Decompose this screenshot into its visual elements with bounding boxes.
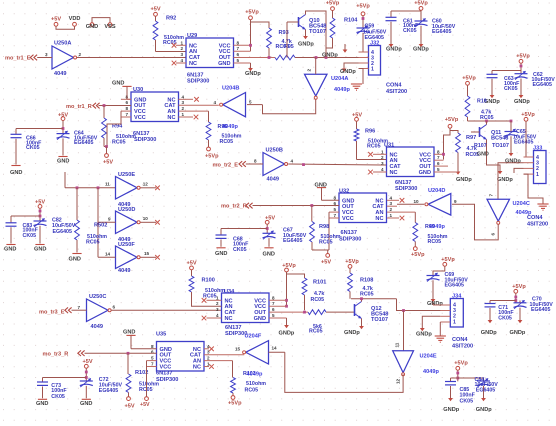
svg-text:1: 1 — [390, 213, 393, 218]
svg-text:GNDp: GNDp — [510, 330, 526, 336]
svg-text:1: 1 — [371, 67, 374, 73]
svg-text:U250F: U250F — [118, 242, 135, 248]
svg-text:5: 5 — [249, 99, 252, 104]
svg-text:RC05: RC05 — [220, 139, 234, 145]
svg-text:6N137: 6N137 — [225, 325, 241, 331]
svg-text:+5V: +5V — [103, 160, 113, 166]
svg-text:GNDp: GNDp — [416, 331, 432, 337]
svg-text:5: 5 — [334, 207, 337, 212]
svg-text:R101: R101 — [313, 280, 326, 286]
svg-text:GNDp: GNDp — [505, 158, 521, 164]
svg-text:CK05: CK05 — [233, 247, 247, 253]
svg-text:+5Vp: +5Vp — [521, 112, 535, 118]
svg-text:4049p: 4049p — [423, 369, 439, 375]
svg-text:EG6405: EG6405 — [283, 238, 302, 244]
svg-text:U204E: U204E — [420, 354, 437, 360]
svg-text:11: 11 — [394, 342, 399, 347]
svg-text:12: 12 — [143, 181, 149, 186]
svg-text:U250C: U250C — [89, 294, 106, 300]
svg-text:GNDp: GNDp — [322, 52, 338, 58]
svg-text:GNDp: GNDp — [298, 42, 314, 48]
svg-text:+5Vp: +5Vp — [205, 153, 219, 159]
svg-text:1: 1 — [453, 319, 456, 325]
svg-text:6: 6 — [437, 161, 440, 166]
svg-text:3: 3 — [45, 52, 48, 57]
svg-text:+5V: +5V — [82, 359, 92, 365]
svg-text:CON4: CON4 — [386, 83, 402, 89]
svg-text:RC05: RC05 — [428, 239, 442, 245]
svg-text:3: 3 — [390, 201, 393, 206]
svg-text:R97: R97 — [466, 135, 476, 141]
svg-text:R98: R98 — [319, 224, 329, 230]
svg-text:7: 7 — [334, 213, 337, 218]
svg-text:NC: NC — [167, 115, 175, 121]
svg-text:RC05: RC05 — [311, 297, 325, 303]
svg-text:2: 2 — [381, 155, 384, 160]
svg-text:mo_tr2_E: mo_tr2_E — [213, 162, 239, 168]
svg-text:12: 12 — [395, 378, 400, 384]
svg-text:RC05: RC05 — [309, 328, 323, 334]
svg-text:3: 3 — [381, 161, 384, 166]
svg-text:9: 9 — [454, 199, 457, 204]
svg-text:2: 2 — [79, 52, 82, 57]
svg-text:RC05: RC05 — [139, 387, 153, 393]
svg-text:GNDp: GNDp — [514, 99, 530, 105]
svg-text:RC05: RC05 — [367, 143, 381, 149]
svg-text:2: 2 — [390, 207, 393, 212]
svg-text:NC: NC — [193, 365, 201, 371]
svg-text:+5Vp: +5Vp — [441, 257, 455, 263]
svg-text:+5V: +5V — [51, 16, 61, 22]
svg-text:2: 2 — [181, 46, 184, 51]
svg-text:+5V: +5V — [321, 259, 331, 265]
svg-text:+5Vp: +5Vp — [462, 75, 476, 81]
svg-text:1: 1 — [536, 172, 539, 178]
svg-text:6: 6 — [237, 52, 240, 57]
svg-text:R95: R95 — [284, 44, 294, 50]
svg-text:4SIT200: 4SIT200 — [527, 222, 548, 228]
svg-text:4: 4 — [181, 58, 184, 63]
svg-text:TO107: TO107 — [371, 317, 388, 323]
svg-text:4: 4 — [182, 94, 185, 99]
svg-text:U35: U35 — [156, 332, 166, 338]
svg-text:SDIP300: SDIP300 — [156, 377, 178, 383]
svg-text:+5Vp: +5Vp — [356, 3, 370, 9]
svg-text:NC: NC — [375, 216, 383, 222]
svg-text:+5Vp: +5Vp — [228, 400, 242, 406]
svg-text:U204C: U204C — [513, 201, 530, 207]
svg-text:8: 8 — [126, 106, 129, 111]
svg-text:4049: 4049 — [91, 324, 103, 330]
svg-text:mo_tr1_E: mo_tr1_E — [5, 56, 31, 62]
svg-text:8: 8 — [272, 295, 275, 300]
svg-text:GNDp: GNDp — [481, 330, 497, 336]
svg-text:R100: R100 — [202, 278, 215, 284]
svg-text:+5Vp: +5Vp — [345, 259, 359, 265]
svg-text:TO107: TO107 — [309, 29, 326, 35]
svg-text:EG6405: EG6405 — [445, 282, 464, 288]
svg-text:4: 4 — [381, 167, 384, 172]
svg-text:GND: GND — [477, 152, 489, 158]
svg-text:6: 6 — [113, 305, 116, 310]
svg-text:10: 10 — [143, 216, 149, 221]
svg-text:GNDp: GNDp — [443, 407, 459, 413]
svg-text:3: 3 — [216, 307, 219, 312]
svg-text:2: 2 — [207, 356, 210, 361]
svg-text:GND: GND — [419, 170, 431, 176]
svg-text:4049: 4049 — [118, 268, 130, 274]
svg-text:+5Vp: +5Vp — [411, 252, 425, 258]
svg-text:2: 2 — [216, 301, 219, 306]
svg-text:R502: R502 — [94, 223, 107, 229]
svg-text:U250B: U250B — [266, 148, 283, 154]
svg-text:510ohm: 510ohm — [246, 381, 266, 387]
svg-text:4: 4 — [214, 100, 217, 105]
svg-text:EG6405: EG6405 — [531, 307, 550, 313]
svg-text:R19: R19 — [477, 98, 487, 104]
svg-text:U204F: U204F — [245, 334, 262, 340]
svg-text:VDD: VDD — [69, 16, 81, 22]
svg-text:GND: GND — [263, 252, 275, 258]
svg-text:U204A: U204A — [331, 76, 348, 82]
svg-text:14: 14 — [105, 252, 111, 257]
svg-text:10uF/50V: 10uF/50V — [52, 223, 76, 229]
svg-text:14: 14 — [272, 346, 278, 351]
svg-text:GND: GND — [86, 24, 98, 30]
svg-text:U204B: U204B — [222, 85, 239, 91]
svg-text:8: 8 — [254, 158, 257, 163]
svg-text:GND: GND — [69, 257, 81, 263]
svg-text:CON4: CON4 — [452, 337, 468, 343]
svg-text:SDIP300: SDIP300 — [134, 137, 156, 143]
svg-text:GND: GND — [218, 61, 230, 67]
svg-text:GND: GND — [10, 170, 22, 176]
svg-text:GNDp: GNDp — [344, 330, 360, 336]
svg-text:+5Vp: +5Vp — [414, 1, 428, 7]
svg-text:+5Vp: +5Vp — [512, 284, 526, 290]
svg-text:R108: R108 — [360, 278, 373, 284]
svg-text:R96: R96 — [365, 129, 375, 135]
svg-text:GNDp: GNDp — [386, 46, 402, 52]
svg-text:mo_tr1_R: mo_tr1_R — [66, 104, 92, 110]
svg-text:15: 15 — [144, 251, 150, 256]
svg-text:CK05: CK05 — [504, 86, 518, 92]
svg-text:GND: GND — [123, 330, 135, 336]
svg-text:CK05: CK05 — [460, 398, 474, 404]
svg-text:GND: GND — [4, 247, 16, 253]
svg-text:+5Vp: +5Vp — [245, 10, 259, 16]
svg-text:GND: GND — [215, 251, 227, 257]
svg-text:7: 7 — [489, 194, 494, 197]
svg-text:R104: R104 — [344, 18, 358, 24]
svg-text:EG6405: EG6405 — [432, 29, 451, 35]
svg-text:4049p: 4049p — [334, 87, 350, 93]
svg-text:4049: 4049 — [267, 177, 279, 183]
svg-text:5: 5 — [437, 167, 440, 172]
svg-text:CK05: CK05 — [23, 233, 37, 239]
svg-text:GND: GND — [80, 401, 92, 407]
svg-text:U204D: U204D — [428, 188, 445, 194]
svg-text:+5Vp: +5Vp — [445, 117, 459, 123]
svg-text:4049p: 4049p — [516, 210, 532, 216]
svg-text:1: 1 — [381, 149, 384, 154]
svg-text:RC05: RC05 — [203, 294, 217, 300]
svg-text:+5Vp: +5Vp — [516, 53, 530, 59]
svg-text:GNDp: GNDp — [413, 46, 429, 52]
svg-text:6: 6 — [491, 233, 496, 236]
svg-text:8: 8 — [334, 195, 337, 200]
svg-text:mo_tr2_R: mo_tr2_R — [221, 203, 247, 209]
svg-text:RC05: RC05 — [245, 387, 259, 393]
svg-text:EG6405: EG6405 — [514, 140, 533, 146]
svg-text:NC: NC — [189, 61, 197, 67]
svg-text:GNDp: GNDp — [245, 71, 261, 77]
svg-text:4: 4 — [216, 313, 219, 318]
svg-text:4049p: 4049p — [429, 224, 445, 230]
svg-text:6N137: 6N137 — [156, 370, 172, 376]
svg-text:2: 2 — [182, 106, 185, 111]
svg-text:6N137: 6N137 — [341, 230, 357, 236]
svg-text:4049p: 4049p — [222, 124, 238, 130]
svg-text:7: 7 — [151, 362, 154, 367]
svg-text:11: 11 — [105, 182, 110, 187]
svg-text:EG6405: EG6405 — [476, 388, 495, 394]
svg-text:7: 7 — [437, 155, 440, 160]
svg-text:VCC: VCC — [342, 216, 354, 222]
svg-text:1: 1 — [182, 112, 185, 117]
svg-text:GND: GND — [112, 81, 124, 87]
svg-text:mo_tr3_R: mo_tr3_R — [43, 351, 69, 357]
svg-text:+5Vp: +5Vp — [454, 361, 468, 367]
svg-text:3: 3 — [182, 100, 185, 105]
svg-text:4049: 4049 — [54, 71, 66, 77]
svg-text:7: 7 — [272, 301, 275, 306]
svg-text:SDIP300: SDIP300 — [187, 78, 209, 84]
svg-text:CK05: CK05 — [403, 28, 417, 34]
svg-text:GND: GND — [36, 401, 48, 407]
svg-text:7: 7 — [126, 112, 129, 117]
svg-text:5: 5 — [272, 313, 275, 318]
svg-text:VSS: VSS — [104, 24, 115, 30]
svg-text:7: 7 — [237, 46, 240, 51]
svg-text:8: 8 — [237, 40, 240, 45]
svg-text:8: 8 — [437, 149, 440, 154]
svg-text:7: 7 — [78, 305, 81, 310]
svg-text:EG6405: EG6405 — [53, 229, 72, 235]
svg-text:+5V: +5V — [140, 402, 150, 408]
svg-text:6: 6 — [126, 100, 129, 105]
svg-text:+5V: +5V — [150, 7, 160, 13]
svg-text:3: 3 — [181, 52, 184, 57]
svg-text:GNDp: GNDp — [456, 177, 472, 183]
svg-text:CK05: CK05 — [26, 145, 40, 151]
svg-text:U250D: U250D — [118, 207, 135, 213]
svg-text:TO107: TO107 — [492, 143, 509, 149]
svg-text:6: 6 — [151, 350, 154, 355]
svg-text:SDIP300: SDIP300 — [339, 236, 361, 242]
svg-text:GND: GND — [57, 158, 69, 164]
svg-text:mo_tr3_E: mo_tr3_E — [39, 310, 65, 316]
svg-text:VCC: VCC — [134, 115, 146, 121]
svg-text:8: 8 — [151, 344, 154, 349]
svg-text:GND: GND — [34, 247, 46, 253]
svg-text:CK05: CK05 — [51, 394, 65, 400]
svg-text:4: 4 — [291, 158, 294, 163]
svg-text:CK05: CK05 — [498, 316, 512, 322]
svg-text:4: 4 — [390, 195, 393, 200]
svg-text:+5Vp: +5Vp — [326, 0, 340, 6]
svg-text:4SIT200: 4SIT200 — [386, 89, 407, 95]
svg-text:U250A: U250A — [54, 40, 71, 46]
svg-text:EG6405: EG6405 — [74, 140, 93, 146]
svg-text:4049p: 4049p — [247, 371, 263, 377]
svg-text:1: 1 — [181, 40, 184, 45]
svg-text:GNDp: GNDp — [279, 331, 295, 337]
svg-text:NC: NC — [390, 170, 398, 176]
svg-text:4SIT200: 4SIT200 — [452, 343, 473, 349]
svg-text:+5V: +5V — [125, 404, 135, 410]
svg-text:NC: NC — [225, 316, 233, 322]
svg-text:+5V: +5V — [186, 260, 196, 266]
svg-text:RC05: RC05 — [360, 291, 374, 297]
svg-text:GNDp: GNDp — [340, 69, 356, 75]
svg-text:2: 2 — [306, 69, 311, 72]
svg-text:5: 5 — [151, 356, 154, 361]
svg-text:U250E: U250E — [118, 172, 135, 178]
svg-text:6: 6 — [272, 307, 275, 312]
svg-text:SDIP300: SDIP300 — [395, 186, 417, 192]
svg-text:R92: R92 — [166, 16, 176, 22]
svg-text:RC05: RC05 — [112, 139, 126, 145]
svg-text:15: 15 — [235, 346, 241, 351]
svg-text:10: 10 — [414, 199, 420, 204]
svg-text:5: 5 — [237, 58, 240, 63]
svg-text:+5Vp: +5Vp — [282, 263, 296, 269]
svg-text:EG6405: EG6405 — [99, 388, 118, 394]
svg-text:EG6405: EG6405 — [533, 82, 552, 88]
svg-text:GND: GND — [254, 316, 266, 322]
svg-text:GNDp: GNDp — [476, 407, 492, 413]
svg-text:RC05: RC05 — [319, 240, 333, 246]
svg-text:GNDp: GNDp — [497, 177, 513, 183]
svg-text:GNDp: GNDp — [427, 301, 443, 307]
svg-text:9: 9 — [108, 217, 111, 222]
svg-text:RC05: RC05 — [86, 240, 100, 246]
